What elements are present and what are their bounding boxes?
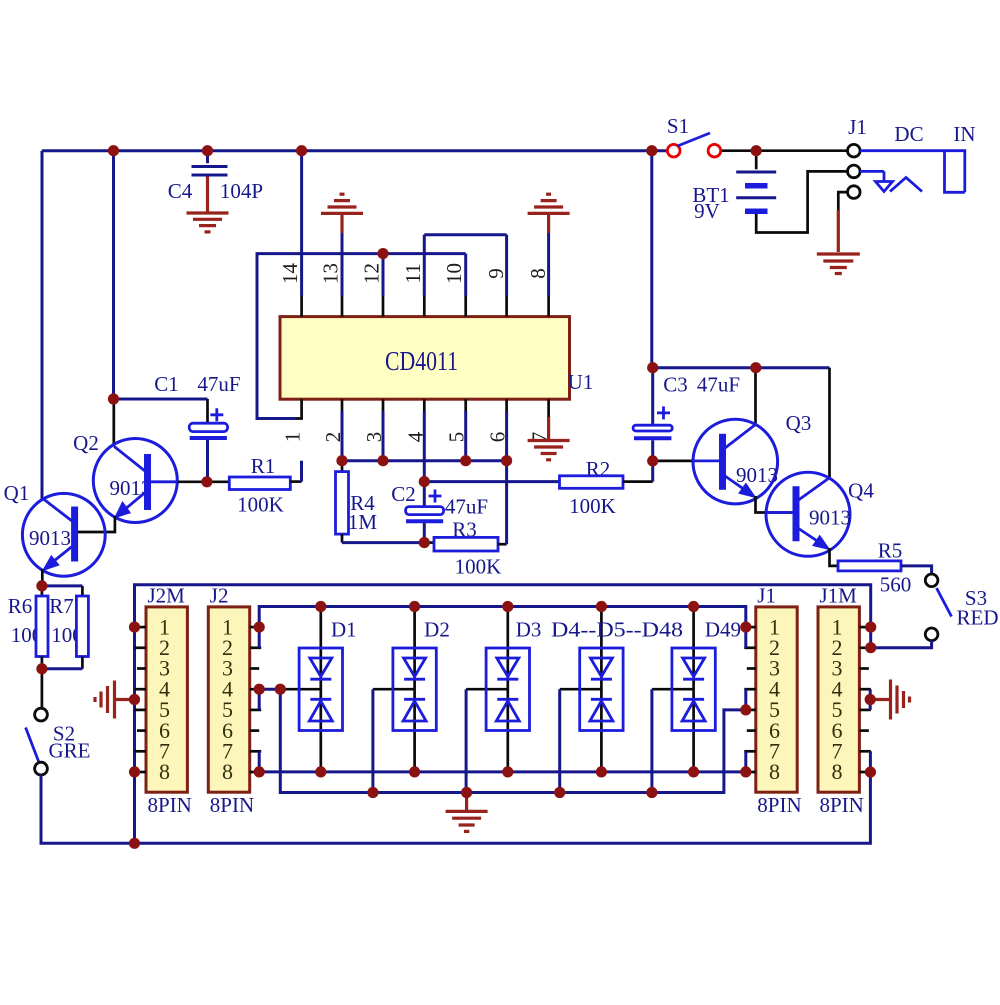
node D4 top	[596, 601, 607, 612]
node Q2 base / C1 / R1	[201, 476, 212, 487]
ground above pin 8	[528, 194, 570, 233]
svg-text:8PIN: 8PIN	[820, 793, 864, 817]
wire S3 to J1M pin2	[871, 641, 932, 648]
op-amp/IC U1 CD4011 body	[280, 317, 570, 400]
pin 6	[486, 399, 510, 461]
pin 10	[442, 254, 466, 317]
ground at J2M pin4 (pointing left)	[95, 681, 135, 719]
wire Q1 emitter to R6 junction	[41, 569, 44, 582]
diode pair D2	[373, 607, 436, 793]
wire J2 pin brackets	[258, 627, 261, 772]
svg-text:Q4: Q4	[848, 479, 874, 503]
node D4 bottom	[596, 766, 607, 777]
wire J1 pin brackets	[744, 627, 747, 772]
diode pair D4	[560, 607, 623, 793]
svg-text:8PIN: 8PIN	[757, 793, 801, 817]
svg-text:J1: J1	[848, 115, 867, 139]
resistor R1 100K	[208, 454, 302, 517]
node pin4 / R2	[419, 476, 430, 487]
ground above pin 13	[321, 194, 363, 233]
wire diode bottom bus	[259, 770, 746, 773]
connector J2 8PIN	[208, 584, 261, 818]
transistor Q4 9013	[766, 368, 874, 557]
wire bus pins 2-3-5-6	[342, 459, 507, 462]
svg-text:D49: D49	[705, 618, 741, 642]
node bus pin2 / R4	[336, 455, 347, 466]
svg-text:Q3: Q3	[786, 411, 812, 435]
svg-text:1: 1	[281, 432, 305, 443]
svg-text:104P: 104P	[220, 179, 263, 203]
svg-text:Q2: Q2	[73, 431, 99, 455]
node J1M pin4-5 / ground	[865, 694, 876, 705]
pin 8	[526, 232, 550, 317]
capacitor C1 47uF	[154, 372, 240, 482]
node C3 top rail	[647, 362, 658, 373]
connector J2M 8PIN	[135, 584, 192, 818]
node lower bus / ground	[461, 787, 472, 798]
svg-text:47uF: 47uF	[197, 372, 240, 396]
wire J1M pin brackets	[869, 689, 872, 772]
svg-text:D1: D1	[331, 618, 357, 642]
wire left rail to Q1 collector	[41, 151, 44, 499]
capacitor C4	[168, 151, 263, 203]
svg-text:DC: DC	[894, 122, 923, 146]
svg-text:560: 560	[880, 573, 912, 597]
wire J1 sleeve to ground	[838, 192, 847, 212]
svg-text:47uF: 47uF	[445, 495, 488, 519]
node D49 bottom	[688, 766, 699, 777]
battery BT1 9V	[692, 151, 847, 233]
node frame bottom-left corner	[129, 838, 140, 849]
svg-text:C4: C4	[168, 179, 193, 203]
ground below pin 7	[528, 417, 570, 460]
svg-text:12: 12	[360, 263, 384, 284]
ground below C4	[187, 177, 229, 232]
wire rail to Q2 collector junction	[112, 151, 115, 399]
svg-text:C2: C2	[391, 482, 416, 506]
node rail / BT1 +	[751, 145, 762, 156]
node bus pin6	[501, 455, 512, 466]
switch S2 GRE	[26, 669, 91, 775]
pin 2	[321, 399, 345, 461]
node D2 bottom	[409, 766, 420, 777]
svg-text:9013: 9013	[736, 463, 778, 487]
svg-text:3: 3	[362, 432, 386, 443]
wire pin4 to R2	[424, 480, 559, 483]
svg-text:14: 14	[278, 263, 302, 285]
svg-text:GRE: GRE	[49, 739, 91, 763]
svg-text:9: 9	[484, 268, 508, 279]
pin 14	[278, 151, 302, 317]
node C3 / Q3 base / R2	[647, 455, 658, 466]
node J1M pin8 / frame	[865, 767, 876, 778]
resistor R3 100K	[424, 461, 506, 579]
svg-text:8PIN: 8PIN	[148, 793, 192, 817]
node lower bus / D2 leg	[367, 787, 378, 798]
connector J1M 8PIN	[818, 584, 871, 818]
svg-text:8: 8	[832, 759, 843, 784]
svg-text:C1: C1	[154, 372, 179, 396]
wire frame bus (left edge, top edge, right verticals, bottom edge)	[135, 585, 871, 844]
resistor R2 100K	[560, 457, 653, 518]
capacitor C2 47uF	[391, 482, 488, 543]
node J1M pin2 / S3	[865, 642, 876, 653]
node J2M pin8 / left bus	[129, 766, 140, 777]
DC jack barrel symbol	[860, 122, 976, 192]
pin 13	[319, 232, 343, 317]
resistor R6 100	[8, 586, 48, 669]
resistor R4 1M	[336, 461, 425, 543]
node Q1 emitter / R6 R7 top	[36, 580, 47, 591]
node D1 top	[315, 601, 326, 612]
svg-text:8PIN: 8PIN	[210, 793, 254, 817]
svg-text:9V: 9V	[694, 199, 720, 223]
svg-text:U1: U1	[568, 370, 594, 394]
svg-text:5: 5	[445, 432, 469, 443]
connector J1 8PIN	[744, 584, 801, 818]
svg-text:D3: D3	[516, 618, 542, 642]
node pin12 / feedback loop	[377, 248, 388, 259]
node Q3 collector / rail	[750, 362, 761, 373]
svg-text:IN: IN	[953, 122, 975, 146]
svg-text:8: 8	[222, 759, 233, 784]
node R6 R7 bottom / S2	[36, 663, 47, 674]
node J1M pin1 / frame	[865, 622, 876, 633]
wire C3 junction to Q3 base	[653, 460, 694, 463]
node D49 top	[688, 601, 699, 612]
wire loop pin11-pin9	[424, 233, 506, 236]
diode pair D3	[466, 607, 529, 793]
node D3 top	[502, 601, 513, 612]
svg-text:J1M: J1M	[820, 584, 858, 608]
node R4 / C2 / R3	[419, 537, 430, 548]
transistor Q3 9013	[693, 368, 811, 504]
svg-text:R6: R6	[8, 594, 33, 618]
svg-text:11: 11	[401, 263, 425, 283]
svg-text:8: 8	[769, 759, 780, 784]
node J1 pin1 / top bus	[740, 622, 751, 633]
diode pair D1	[299, 607, 342, 772]
svg-text:13: 13	[319, 263, 343, 284]
wire Q2 emitter to Q1 base	[78, 516, 115, 532]
transistor Q1 9013	[4, 481, 106, 576]
svg-text:2: 2	[321, 432, 345, 443]
svg-text:R1: R1	[251, 454, 276, 478]
svg-text:J1: J1	[757, 584, 776, 608]
svg-text:1M: 1M	[348, 510, 378, 534]
pin 9	[484, 235, 508, 317]
node V+ rail / pin14	[296, 145, 307, 156]
wire lower bus to ground	[280, 689, 746, 792]
svg-text:J2: J2	[210, 584, 229, 608]
wire D1 centre tap to J2 pin4	[259, 688, 285, 691]
wire C3 top rail to Q3/Q4 collectors	[652, 366, 830, 369]
svg-text:C3: C3	[663, 373, 688, 397]
node V+ rail / Q2 collector riser	[108, 145, 119, 156]
node J2M pin1 / left bus	[129, 622, 140, 633]
node J2 pin4 / D tap	[254, 684, 265, 695]
svg-text:D4--D5--D48: D4--D5--D48	[551, 618, 683, 642]
svg-text:8: 8	[526, 268, 550, 279]
svg-text:S1: S1	[667, 114, 689, 138]
svg-text:10: 10	[442, 263, 466, 284]
node D2 top	[409, 601, 420, 612]
wire rail from S1 to J1	[721, 149, 848, 152]
wire diode top bus	[259, 607, 746, 628]
wire Q4 emitter to R5	[830, 548, 839, 566]
svg-text:CD4011: CD4011	[385, 346, 458, 376]
svg-text:6: 6	[486, 432, 510, 443]
ground at lower bus	[446, 793, 488, 832]
ground at J1M pin4 (pointing right)	[870, 680, 909, 720]
wire Q3 emitter to Q4 base	[756, 496, 793, 513]
pin 12	[360, 254, 384, 317]
pin 3	[362, 399, 386, 461]
svg-text:100K: 100K	[237, 493, 284, 517]
wire V+ riser to C3 rail	[650, 151, 653, 368]
svg-text:100K: 100K	[569, 494, 616, 518]
svg-text:Q1: Q1	[4, 481, 30, 505]
capacitor C3 47uF	[633, 368, 740, 461]
connector J1 (DC jack pins)	[848, 115, 867, 198]
resistor R7 100	[42, 586, 89, 669]
svg-text:9013: 9013	[809, 506, 851, 530]
svg-text:RED: RED	[957, 606, 999, 630]
switch S3 RED	[925, 574, 998, 641]
wire S2 to bottom frame corner	[41, 775, 135, 843]
node J2 pin8 / bottom bus	[254, 766, 265, 777]
node lower bus / D4 leg	[554, 787, 565, 798]
pin 4	[404, 399, 428, 481]
node bus pin5	[460, 455, 471, 466]
pin 1	[281, 432, 305, 443]
svg-text:R5: R5	[878, 539, 903, 563]
node C1 / Q2 collector	[108, 393, 119, 404]
node D3 bottom	[502, 766, 513, 777]
svg-text:9013: 9013	[29, 526, 71, 550]
node J2 pin1 / top bus riser	[254, 622, 265, 633]
node J1 pin8 / bottom bus	[740, 766, 751, 777]
node J2M pin4-5 / ground	[129, 694, 140, 705]
pin 5	[445, 399, 469, 461]
node lower bus / D49 leg	[646, 787, 657, 798]
node V+ rail / right riser	[646, 145, 657, 156]
node D1 tap / lower bus riser	[275, 684, 286, 695]
node D1 bottom	[315, 766, 326, 777]
node J1 pin5 / lower bus riser	[740, 704, 751, 715]
pin 7	[528, 399, 552, 442]
svg-text:4: 4	[404, 431, 428, 442]
svg-text:R7: R7	[49, 594, 74, 618]
diode pair D49	[652, 607, 715, 793]
svg-text:47uF: 47uF	[697, 373, 740, 397]
svg-text:J2M: J2M	[148, 584, 186, 608]
node bus pin3	[377, 455, 388, 466]
svg-text:100K: 100K	[455, 555, 502, 579]
switch S1	[667, 114, 721, 157]
pin 11	[401, 235, 425, 317]
ground below J1	[817, 210, 860, 274]
node V+ rail / C4	[202, 145, 213, 156]
wire top supply rail	[42, 149, 668, 152]
svg-text:D2: D2	[424, 618, 450, 642]
wire junction to C1	[114, 398, 208, 401]
svg-text:8: 8	[159, 759, 170, 784]
transistor Q2 9013	[73, 399, 203, 523]
resistor R5 560	[838, 539, 932, 597]
wire loop pin1-pin12-pin10	[295, 399, 302, 418]
